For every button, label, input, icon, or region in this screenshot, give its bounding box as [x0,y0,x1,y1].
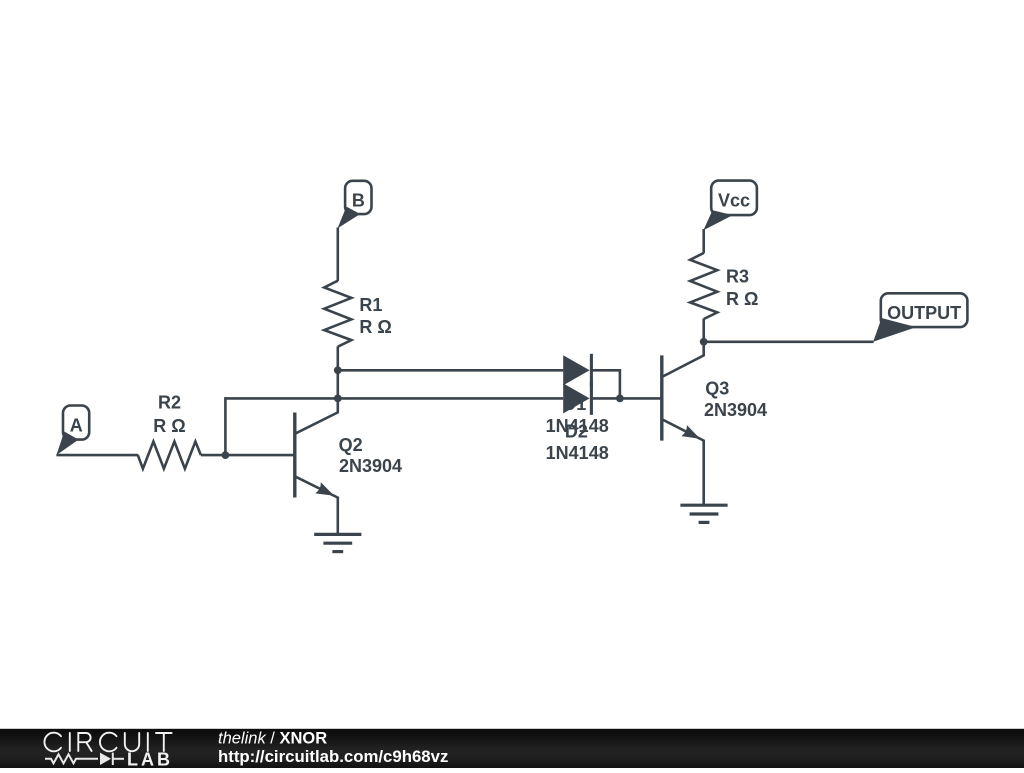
resistor R1 [324,281,351,347]
transistor Q3 [662,355,705,441]
junction node A/R2/base [222,451,230,459]
svg-text:LAB: LAB [127,749,173,768]
wire Vcc to R3 [702,229,705,253]
wire node to D1 anode [338,369,563,372]
net flag OUTPUT [873,293,967,342]
CircuitLab logo squiggle (resistor+diode) [45,753,124,765]
svg-text:R3: R3 [726,267,749,287]
svg-text:2N3904: 2N3904 [339,456,402,476]
junction node Q2 base net [334,395,342,403]
footer bar [0,729,1024,768]
ground Q3 emitter [680,505,727,522]
svg-text:http://circuitlab.com/c9h68vz: http://circuitlab.com/c9h68vz [218,747,448,766]
wire Q2 emitter to ground [336,497,339,534]
svg-text:R1: R1 [359,295,382,315]
diode D2 [563,382,591,415]
wire OUTPUT [704,340,874,343]
net flag B [338,181,372,229]
ground Q2 emitter [314,534,361,551]
resistor R2 [138,442,201,469]
wire D2 cathode to Q3 base [591,397,661,400]
svg-text:A: A [70,416,83,436]
wire R1 bottom to Q2 collector [336,346,339,412]
svg-text:thelink / XNOR: thelink / XNOR [218,729,327,747]
svg-text:1N4148: 1N4148 [546,443,609,463]
diode D1 [563,354,591,387]
junction node collector/OUTPUT [700,338,708,346]
svg-text:D2: D2 [565,422,588,442]
wire base net to D2 anode [225,397,563,400]
svg-text:B: B [352,190,365,210]
transistor Q2 [295,412,339,498]
svg-text:R2: R2 [158,392,181,412]
CircuitLab logo CIRCUIT [44,733,171,752]
net flag Vcc [703,181,757,231]
svg-text:2N3904: 2N3904 [704,400,767,420]
wire D1 cathode to junction [591,370,620,398]
svg-text:R Ω: R Ω [359,317,391,337]
wire R3 to Q3 collector [702,319,705,356]
resistor R3 [690,253,717,319]
wire R2 to Q2 base [201,454,295,457]
svg-text:R Ω: R Ω [726,289,758,309]
svg-text:R Ω: R Ω [153,416,185,436]
wire Q3 emitter to ground [702,440,705,505]
svg-text:Vcc: Vcc [718,190,750,210]
svg-text:OUTPUT: OUTPUT [887,303,961,323]
svg-text:Q3: Q3 [705,378,729,398]
svg-text:Q2: Q2 [339,435,363,455]
junction node R1/D1 [334,366,342,374]
net flag A [56,406,89,456]
wire B to R1 [336,228,339,282]
wire A to R2 [56,454,138,457]
wire vertical A-node to base net [224,397,227,455]
junction node D1/D2 cathodes [616,395,624,403]
